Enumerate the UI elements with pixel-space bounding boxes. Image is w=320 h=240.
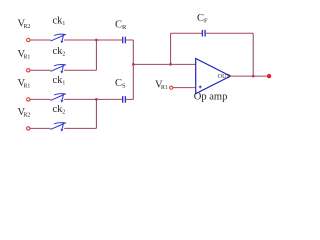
capacitor CF [202,30,205,37]
wire feedback right riser [252,33,254,76]
switch ck2 (row 2) [51,65,66,74]
junction feedback tap [169,63,172,66]
op-amp U1 [196,59,231,94]
wire output [230,75,266,77]
wire row3 right [64,98,122,100]
wire riser row2 to row1 [95,40,97,70]
capacitor CS [123,96,126,103]
wire feedback top left [171,32,202,34]
svg-text:Op amp: Op amp [194,91,228,102]
capacitor CR [123,37,126,44]
terminal VR2 (open circle, row 4) [27,127,30,130]
wire CR to corner [126,39,133,41]
switch ck1 (row 3) [51,94,66,103]
terminal VR1 plus input (open circle) [170,86,173,89]
wire summing node to op-amp inverting input [133,63,195,65]
wire row2 right [64,69,96,71]
wire row3 left [30,98,51,100]
wire row4 left [30,127,51,129]
switch ck2 (row 4) [51,123,66,132]
junction node row1/row2 riser [95,39,98,42]
wire CS to corner [126,98,133,100]
junction node row3/row4 riser [95,98,98,101]
wire plus input [173,87,196,89]
wire riser row4 to row3 [95,99,97,128]
wire node column x=133 (CR corner down to CS corner) [132,40,134,99]
wire feedback riser left [170,33,172,64]
terminal VR1 (open circle, row 3) [27,98,30,101]
wire feedback top right [206,32,253,34]
wire row1 right [64,39,122,41]
wire row4 right [64,127,96,129]
junction summing node [132,63,135,66]
wire row2 left [30,69,51,71]
op-amp plus sign [199,85,202,88]
switch ck1 (row 1) [51,34,66,43]
terminal output (filled) [267,74,271,78]
wire row1 left [30,39,51,41]
terminal VR1 (open circle, row 2) [27,69,30,72]
svg-text:OUT: OUT [218,74,230,80]
junction feedback/output [252,75,255,78]
terminal VR2 (open circle, row 1) [27,38,30,41]
